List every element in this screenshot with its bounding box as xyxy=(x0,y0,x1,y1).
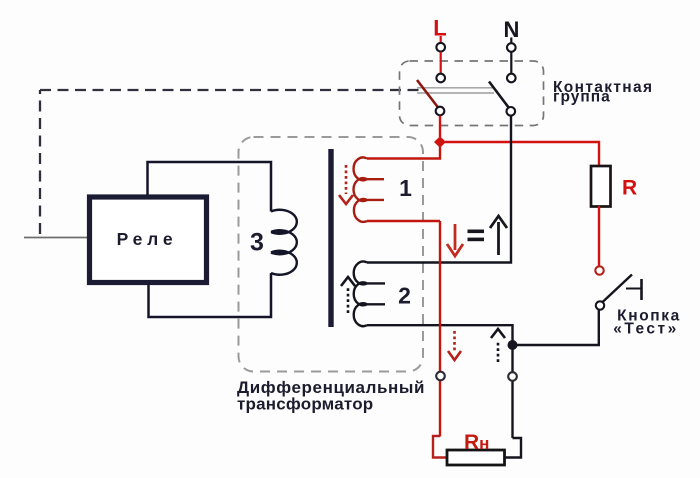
coil 3 (secondary winding) xyxy=(271,210,297,275)
contact circle N lower xyxy=(507,107,516,116)
wire: stub into relay left xyxy=(24,237,88,239)
svg-text:Rн: Rн xyxy=(464,431,489,454)
wire: resistor R to test contact xyxy=(598,206,600,266)
red dashed arrow lower (down) xyxy=(448,331,461,360)
red solid arrow (down) current symbol xyxy=(447,224,463,256)
switch lever L (red) xyxy=(417,80,440,110)
wire: test button down to node xyxy=(517,310,599,345)
svg-text:трансформатор: трансформатор xyxy=(237,395,373,414)
wire: junction to coil 1 top xyxy=(367,140,440,159)
differential transformer dashed box xyxy=(239,137,424,372)
relay box xyxy=(90,197,207,283)
terminal circle N inner xyxy=(507,74,516,83)
svg-text:2: 2 xyxy=(398,283,411,309)
wire: red bottom jog to load resistor xyxy=(433,436,447,458)
wire: L between terminals xyxy=(440,52,442,74)
test button stem xyxy=(626,288,641,290)
terminal circle L upper xyxy=(436,43,445,52)
wire: N stem above terminal xyxy=(510,38,512,44)
mechanical link bars (gray) xyxy=(417,88,494,93)
wire: coil 2 bottom out xyxy=(367,325,513,438)
red dashed arrow at coil 1 (down) xyxy=(339,165,353,204)
terminal circle above test button (red) xyxy=(595,266,603,274)
wire: coil 1 bottom out xyxy=(367,220,440,222)
test button lever xyxy=(602,275,633,304)
test button cap bar xyxy=(640,279,643,300)
terminal circle on red output xyxy=(436,372,445,381)
terminal circle L inner xyxy=(436,74,445,83)
wire: coil 1 bottom down (red line to bottom) xyxy=(439,221,441,437)
resistor R xyxy=(591,166,611,207)
svg-text:3: 3 xyxy=(250,229,264,257)
wire: N between terminals xyxy=(510,52,512,74)
wire: relay top to coil 3 xyxy=(148,162,272,212)
resistor Rн (load) xyxy=(447,450,505,465)
wire: relay bottom to coil 3 xyxy=(149,273,272,317)
contact group dashed box xyxy=(400,61,544,126)
svg-text:Реле: Реле xyxy=(117,229,178,249)
wire: relay trip linkage (dashed) horizontal xyxy=(40,89,422,91)
terminal circle N upper xyxy=(507,43,516,52)
wire: L contact to junction xyxy=(439,116,441,137)
wire: relay trip linkage (dashed) vertical xyxy=(39,90,41,234)
transformer core bar xyxy=(328,149,333,327)
terminal circle on neutral output xyxy=(508,372,517,381)
equals sign xyxy=(468,230,485,242)
svg-text:R: R xyxy=(622,177,637,200)
coil 2 (neutral winding) xyxy=(354,262,385,327)
svg-text:группа: группа xyxy=(553,89,611,106)
wire: black bottom jog to load resistor xyxy=(505,438,522,458)
black dashed arrow lower (up) xyxy=(491,329,505,362)
black dashed arrow at coil 2 (up) xyxy=(341,277,355,313)
svg-text:«Тест»: «Тест» xyxy=(613,321,679,338)
junction node (red diamond) xyxy=(434,136,446,148)
coil 1 (red phase winding) xyxy=(354,157,384,221)
wire: junction to resistor R (horizontal) xyxy=(445,142,599,165)
wire: N contact down and left to coil 2 top xyxy=(367,116,511,263)
switch lever N xyxy=(489,82,511,111)
svg-text:1: 1 xyxy=(399,175,412,201)
contact circle L lower xyxy=(436,107,445,116)
node: test branch junction (filled dot) xyxy=(508,340,518,350)
wire: L stem above terminal xyxy=(440,36,442,43)
test button contact circle xyxy=(596,301,604,309)
black solid arrow (up) current symbol xyxy=(490,216,507,255)
